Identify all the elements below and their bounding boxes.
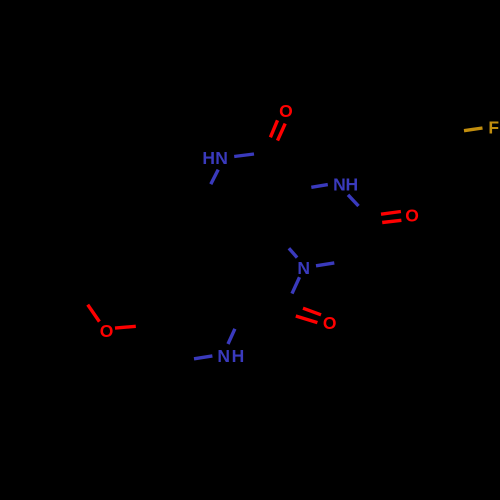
bond C=O6 double bond red halves [296, 308, 321, 322]
svg-text:N: N [215, 148, 228, 168]
svg-text:H: H [232, 346, 245, 366]
bond O7-C red half (up-left) [88, 305, 100, 322]
bond NH8-C blue half (up-right) [228, 329, 235, 344]
svg-text:O: O [100, 321, 114, 341]
svg-text:N: N [297, 258, 310, 278]
bond N5-C blue half (down-left) [292, 277, 300, 293]
svg-text:H: H [345, 175, 358, 195]
bond C3=O1 double bond red halves [270, 120, 285, 140]
bond C=O4 double bond red halves [381, 212, 401, 223]
bond N5-C blue half (right) [316, 263, 334, 266]
svg-text:F: F [488, 118, 499, 138]
svg-text:O: O [405, 206, 419, 226]
bond N5-C blue half (up-left) [289, 248, 297, 257]
bond F9-C golden half [464, 128, 483, 131]
bond HN2-C blue half (down-left) [211, 170, 218, 185]
svg-text:N: N [217, 346, 230, 366]
bond NH3-C blue half (down-right) [348, 195, 359, 206]
svg-text:H: H [202, 148, 215, 168]
bond O7-C red half (right) [115, 326, 136, 328]
bond NH8-C blue half (left) [194, 356, 212, 359]
svg-text:O: O [279, 101, 293, 121]
bond HN2-C3 blue half [234, 154, 254, 157]
bond NH3-C blue half (left) [311, 185, 328, 188]
svg-text:O: O [323, 313, 337, 333]
svg-text:N: N [333, 175, 346, 195]
